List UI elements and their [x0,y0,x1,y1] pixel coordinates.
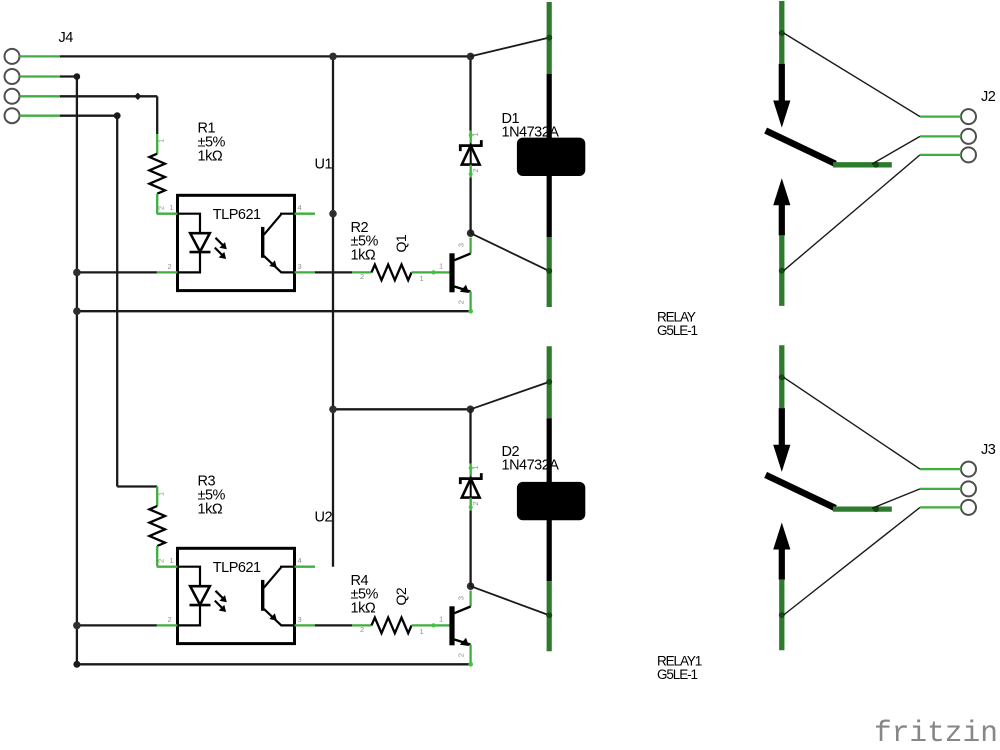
svg-text:RELAYG5LE-1: RELAYG5LE-1 [657,309,698,338]
wire relay RELAY NC contact to J2 pin 1 [784,33,920,117]
svg-text:4: 4 [298,203,302,212]
svg-text:3: 3 [457,596,466,600]
wire Q1 emitter to return [468,309,473,314]
transistor Q2 emitter lead [454,640,470,645]
svg-text:1: 1 [439,261,443,270]
junction Q1 collector node [467,229,475,237]
svg-text:2: 2 [168,262,172,271]
svg-text:3: 3 [457,243,466,247]
relay RELAY common contact bar [833,162,892,167]
wire D1 anode to Q1 collector [469,178,471,234]
diode D1 triangle [462,146,480,165]
wire J3 pin 3 stub [920,506,961,508]
svg-text:4: 4 [298,556,302,565]
junction emitter return on bus [73,307,81,315]
optocoupler U2 pin 2 stub [157,624,178,626]
wire J4 pin2 horizontal [60,75,77,77]
wire U1 pin3 to R2 [315,271,353,273]
optocoupler U2 LED cathode lead [178,605,201,625]
relay RELAY coil line upper black [547,74,552,140]
optocoupler U1 LED cathode bar [190,251,211,254]
transistor Q1 base bar [449,253,454,292]
wire emitter return channel2 [77,663,471,665]
relay RELAY1 switch top terminal bar [779,345,784,408]
wire J4 pin3 vertical to R1 [156,96,158,134]
junction node A right [467,53,475,61]
relay RELAY1 up arrowhead [773,523,790,550]
svg-text:TLP621: TLP621 [213,207,261,223]
relay RELAY1 common pin dot [873,506,879,512]
transistor Q2 emitter arrowhead [460,638,469,646]
connector J3 pin 1 circle [961,462,976,477]
optocoupler U2 phototransistor base bar [261,580,264,611]
wire channel2 feed horizontal [333,408,470,410]
relay RELAY switch top pin dot [779,30,785,36]
relay RELAY coil line lower green [547,237,552,307]
wire J4 pin4 vertical to R3 [116,116,118,487]
wire relay RELAY1 NO contact to J3 pin 3 [784,507,920,615]
wire Q2 collector to RELAY1 coil pin2 diagonal [471,586,549,615]
relay RELAY coil pin 2 dot [546,268,552,274]
optocoupler U1 emitter arrowhead [269,260,277,267]
relay RELAY1 down arrowhead [773,445,790,472]
optocoupler U1 phototransistor base bar [261,227,264,258]
wire resistor left lead [352,624,372,626]
wire relay RELAY1 common to J3 pin 2 [872,489,920,508]
optocoupler U2 body box [178,548,295,643]
svg-text:Q2: Q2 [393,587,409,605]
svg-text:TLP621: TLP621 [213,560,261,576]
svg-text:1: 1 [157,492,166,496]
optocoupler U1 LED cathode lead [178,252,201,272]
wire resistor top lead [156,487,158,507]
resistor zigzag [372,618,412,634]
wire relay RELAY common to J2 pin 2 [872,136,920,164]
wire R3 feed horizontal [117,485,157,487]
wire emitter return channel1 [77,310,471,312]
relay RELAY coil line upper green [547,2,552,74]
relay RELAY coil line lower black [547,174,552,237]
junction U1 pin2 on bus [73,269,81,277]
wire J2 pin 2 stub [920,135,961,137]
optocoupler U2 pin 1 stub [157,566,178,568]
svg-text:1: 1 [420,627,424,636]
wire D2 anode to Q2 collector [469,511,471,587]
optocoupler U1 light arrow 1 [216,238,224,246]
optocoupler U1 pin 1 stub [157,213,178,215]
relay RELAY1 switch bottom pin dot [779,612,785,618]
optocoupler U1 body box [178,195,295,290]
wire J4 pin 4 stub [20,115,61,117]
wire J4 pin 3 stub [20,95,61,97]
relay RELAY1 coil line upper black [547,418,552,484]
wire J3 pin 2 stub [920,488,961,490]
svg-text:2: 2 [360,272,364,281]
junction channel2 feed right node B [467,406,475,414]
svg-text:Q1: Q1 [393,234,409,252]
optocoupler U1 LED triangle [190,233,210,252]
connector J3 pin 3 circle [961,500,976,515]
relay RELAY up arrowhead [773,178,790,205]
wire node A to D1 [469,56,471,130]
svg-text:2: 2 [360,625,364,634]
wire U2 pin2 horizontal [77,624,157,626]
relay RELAY1 switch top pin dot [779,374,785,380]
junction R2 right lead dot [431,270,435,274]
wire J4 pin2 vertical bus [76,77,78,665]
diode D1 anode pin stub [470,165,472,178]
diode D2 cathode pin stub [470,464,472,479]
optocoupler U2 phototransistor emitter [264,609,295,626]
relay RELAY switch bottom pin dot [779,268,785,274]
relay RELAY up arrow shaft [779,204,785,235]
relay RELAY1 coil line lower green [547,581,552,651]
wire resistor right lead [412,624,434,626]
svg-text:U1: U1 [315,156,333,172]
wire node B to D2 [469,409,471,463]
resistor zigzag [149,506,165,546]
transistor Q2 collector lead [454,607,470,614]
junction Q2 collector node [467,582,475,590]
optocoupler U2 pin 4 stub [295,566,316,568]
wire resistor bottom lead [156,546,158,566]
optocoupler U2 pin 3 stub [295,624,316,626]
wire node A to RELAY coil pin1 diagonal [471,38,549,57]
transistor Q1 emitter lead [454,287,470,292]
svg-text:1: 1 [157,139,166,143]
svg-text:3: 3 [298,615,302,624]
svg-text:2: 2 [457,300,466,304]
svg-text:2: 2 [457,653,466,657]
wire U1 pin2 horizontal [77,271,157,273]
optocoupler U1 light arrow 2 [215,248,223,256]
svg-text:2: 2 [157,559,166,563]
optocoupler U1 LED anode lead [178,214,201,234]
relay RELAY coil box [517,138,585,176]
optocoupler U2 phototransistor collector [264,567,295,588]
svg-text:1: 1 [170,556,174,565]
svg-text:1: 1 [471,465,480,469]
wire J4 pin4 horizontal [60,115,117,117]
junction J4 pin4 corner [114,112,121,119]
wire J2 pin 1 stub [920,115,961,117]
transistor Q1 collector pin stub [469,238,471,254]
transistor Q2 emitter pin stub [469,645,471,665]
svg-text:J4: J4 [59,30,74,46]
optocoupler U1 pin 2 stub [157,271,178,273]
wire U1 pin4 vertical bus [332,56,334,566]
connector J4 pin 3 circle [5,89,20,104]
optocoupler U1 phototransistor collector [264,214,295,235]
relay RELAY1 coil pin 2 dot [546,612,552,618]
connector J4 pin 2 circle [5,69,20,84]
svg-text:fritzing: fritzing [874,716,1000,750]
wire J2 pin 3 stub [920,154,961,156]
transistor Q1 emitter arrowhead [460,285,469,293]
transistor Q2 base bar [449,606,454,645]
diode D2 triangle [462,479,480,498]
junction J4 pin2 corner [74,73,81,80]
relay RELAY coil pin 1 dot [546,35,552,41]
optocoupler U2 light arrow 2 [215,601,223,609]
diode D1 cathode pin stub [470,131,472,146]
wire J4 pin3 horizontal [60,95,157,97]
wire J4 pin 2 stub [20,75,61,77]
optocoupler U1 pin 3 stub [295,271,316,273]
wire U2 pin3 to R4 [315,624,353,626]
relay RELAY switch top terminal bar [779,1,784,64]
svg-text:1: 1 [471,132,480,136]
wire relay RELAY NO contact to J2 pin 3 [784,155,920,271]
transistor Q1 emitter pin stub [469,292,471,312]
relay RELAY1 common contact bar [833,506,892,511]
optocoupler U1 phototransistor emitter [264,256,295,273]
wire node B to RELAY1 coil pin1 diagonal [471,382,549,409]
wire resistor bottom lead [156,194,158,214]
optocoupler U2 LED cathode bar [190,604,211,607]
optocoupler U2 LED triangle [190,586,210,605]
relay RELAY1 coil line upper green [547,346,552,418]
relay RELAY1 coil box [517,482,585,520]
junction bendpoint on pin3 wire [134,93,141,100]
diode D1 zener cathode bar [460,140,481,151]
relay RELAY1 down arrow shaft [779,408,785,448]
svg-text:2: 2 [168,615,172,624]
relay RELAY switch blade [769,132,833,162]
relay RELAY1 switch blade [769,476,833,506]
relay RELAY1 switch bottom terminal bar [779,580,784,651]
relay RELAY down arrowhead [773,101,790,128]
junction R4 right lead dot [431,623,435,627]
wire resistor top lead [156,134,158,154]
svg-text:J3: J3 [981,442,996,458]
wire Q2 emitter to return [468,662,473,667]
wire Q1 collector to RELAY coil pin2 diagonal [471,233,549,271]
svg-text:1: 1 [420,274,424,283]
connector J4 pin 4 circle [5,108,20,123]
wire J4 pin 1 stub [20,55,61,57]
resistor zigzag [149,154,165,194]
resistor zigzag [372,265,412,281]
svg-text:RELAY1G5LE-1: RELAY1G5LE-1 [657,654,702,683]
relay RELAY down arrow shaft [779,64,785,104]
relay RELAY1 coil pin 1 dot [546,379,552,385]
transistor Q1 collector lead [454,254,470,261]
connector J2 pin 3 circle [961,147,976,162]
optocoupler U2 LED anode lead [178,567,201,587]
junction node A top [329,53,337,61]
wire J3 pin 1 stub [920,468,961,470]
optocoupler U1 pin 4 stub [295,213,316,215]
wire R2 to Q1 base [434,271,450,273]
junction channel2 feed left [329,406,337,414]
svg-text:U2: U2 [315,509,333,525]
wire resistor left lead [352,271,372,273]
svg-text:3: 3 [298,262,302,271]
wire relay RELAY1 NC contact to J3 pin 1 [784,377,920,469]
transistor Q2 collector pin stub [469,591,471,607]
junction U2 pin2 on bus [73,622,81,630]
diode D2 zener cathode bar [460,473,481,484]
connector J2 pin 1 circle [961,109,976,124]
diode D1 internal lead through triangle [470,148,472,165]
relay RELAY1 up arrow shaft [779,548,785,579]
wire net1 J4 pin1 to node A horizontal [60,55,471,57]
diode D2 anode pin stub [470,498,472,511]
connector J4 pin 1 circle [5,49,20,64]
svg-text:J2: J2 [981,89,996,105]
svg-text:1: 1 [170,203,174,212]
relay RELAY switch bottom terminal bar [779,235,784,306]
optocoupler U2 emitter arrowhead [269,613,277,620]
svg-text:2: 2 [471,168,480,172]
relay RELAY common pin dot [873,162,879,168]
connector J2 pin 2 circle [961,129,976,144]
junction U1 pin4 node [329,210,337,218]
svg-text:2: 2 [157,206,166,210]
diode D2 internal lead through triangle [470,481,472,498]
junction emitter return channel2 corner [73,661,80,668]
optocoupler U2 light arrow 1 [216,591,224,599]
wire resistor right lead [412,271,434,273]
connector J3 pin 2 circle [961,481,976,496]
relay RELAY1 coil line lower black [547,518,552,581]
svg-text:2: 2 [471,501,480,505]
svg-text:1: 1 [439,614,443,623]
wire R4 to Q2 base [434,624,450,626]
